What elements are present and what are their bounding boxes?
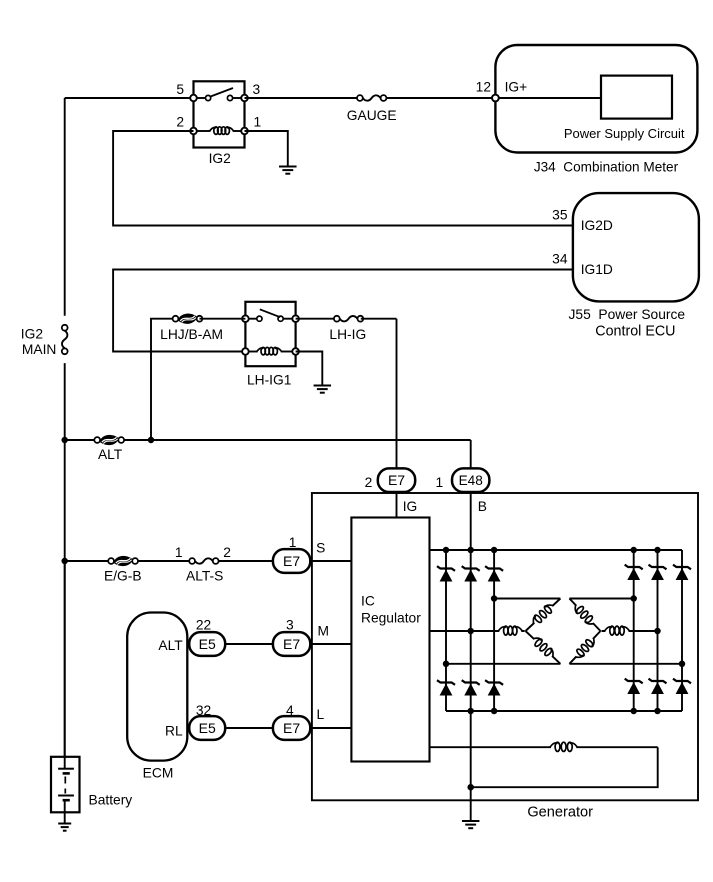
wire B stem through generator <box>470 492 472 821</box>
svg-text:S: S <box>316 540 325 555</box>
node center rail right <box>654 628 661 635</box>
wire B+ top rail <box>430 549 683 551</box>
fuse ALT-S <box>194 557 215 565</box>
svg-text:E/G-B: E/G-B <box>104 569 142 584</box>
wire down to connector E7 IG <box>396 319 398 469</box>
svg-text:2: 2 <box>223 545 231 560</box>
svg-text:IG2: IG2 <box>209 151 231 166</box>
wire diode column R2 <box>657 550 659 711</box>
svg-text:LH-IG: LH-IG <box>329 327 366 342</box>
wire stator phase rail lower-left <box>446 663 560 665</box>
node phase lower-right <box>679 661 686 668</box>
connector E7 IG <box>378 468 415 492</box>
svg-text:3: 3 <box>286 618 294 633</box>
node junction LHJ/B-AM feed <box>148 437 155 444</box>
battery box <box>51 757 80 813</box>
svg-text:E7: E7 <box>283 720 300 736</box>
relay LH-IG1 box <box>245 302 295 366</box>
svg-text:B: B <box>478 499 487 514</box>
fuse LH-IG <box>338 315 359 323</box>
ground LH-IG1 relay <box>314 385 332 387</box>
diode top R1 <box>625 565 643 570</box>
wire IG2 pin1 to ground <box>245 131 288 167</box>
node top rail junctions <box>443 547 450 554</box>
battery cell 1 short plate <box>63 772 70 775</box>
wire stator phase rail upper-right <box>569 598 633 600</box>
stator winding right Y lower branch <box>569 631 600 664</box>
rotor coil <box>551 745 576 749</box>
wire battery to ground <box>64 800 66 823</box>
svg-text:22: 22 <box>196 618 211 633</box>
wire IG stem into IC regulator <box>396 492 398 517</box>
svg-text:J34 Combination Meter: J34 Combination Meter <box>534 160 679 175</box>
svg-text:E48: E48 <box>459 473 483 488</box>
ground battery <box>58 823 71 825</box>
battery cell 2 long plate <box>58 795 74 797</box>
wire LHJ/B-AM feed from ALT junction <box>151 319 176 440</box>
svg-text:IG+: IG+ <box>505 80 528 95</box>
wire IG2 pin2 to J55 IG2D <box>113 131 573 226</box>
node center rail at B column <box>467 628 474 635</box>
wire bottom rail <box>446 710 682 712</box>
svg-text:Regulator: Regulator <box>361 611 421 626</box>
svg-text:34: 34 <box>552 252 568 267</box>
diode top L2 <box>462 566 480 571</box>
diode top L3 <box>485 566 503 571</box>
svg-text:M: M <box>318 623 330 638</box>
wire battery feed vertical left <box>64 98 66 316</box>
stator winding left Y upper branch <box>526 599 561 632</box>
svg-text:LHJ/B-AM: LHJ/B-AM <box>160 327 223 342</box>
svg-text:GAUGE: GAUGE <box>347 108 397 123</box>
wire rotor field circuit <box>430 746 658 748</box>
stator winding left Y lower branch <box>526 631 561 664</box>
wire J55 IG1D to LH-IG1 relay coil <box>113 270 573 352</box>
svg-text:E7: E7 <box>283 636 300 652</box>
wire pin12 to power supply circuit <box>499 97 601 99</box>
svg-text:3: 3 <box>253 82 261 97</box>
diode bottom R3 <box>673 679 691 684</box>
relay IG2 switch contact <box>197 97 206 99</box>
stator winding right Y upper branch <box>569 599 600 632</box>
svg-text:12: 12 <box>476 80 491 95</box>
svg-text:5: 5 <box>176 82 184 97</box>
svg-text:J55 Power Source: J55 Power Source <box>569 307 686 322</box>
diode bottom L2 <box>462 680 480 685</box>
wire stator center rail right <box>602 630 658 632</box>
diode bottom R1 <box>625 679 643 684</box>
connector E5 RL <box>189 716 225 740</box>
svg-text:IG1D: IG1D <box>581 262 613 277</box>
relay LH-IG1 switch contact <box>249 318 257 320</box>
relay IG2 pin 1 <box>241 128 248 135</box>
relay IG2 pin 3 <box>241 95 248 102</box>
wire stator center rail left <box>430 630 525 632</box>
svg-text:ALT-S: ALT-S <box>186 569 223 584</box>
wire LH-IG1 to LH-IG fuse to E7 <box>296 318 337 320</box>
wire IG2 pin3 to GAUGE to meter <box>245 97 496 99</box>
box ECM <box>127 613 187 761</box>
wire diode column L1 <box>445 550 447 711</box>
wire down to connector E48 <box>470 440 472 468</box>
wire diode column L3 <box>493 550 495 711</box>
stator winding right Y horizontal coil <box>606 629 629 633</box>
svg-text:Power Supply Circuit: Power Supply Circuit <box>564 126 685 141</box>
relay LH-IG1 coil <box>249 351 259 353</box>
wire S row horizontal <box>65 560 273 562</box>
relay IG2 pin 5 <box>190 95 197 102</box>
svg-text:IG: IG <box>403 499 418 514</box>
relay IG2 coil <box>197 130 212 132</box>
node junction ALT row <box>61 437 68 444</box>
box Power Supply Circuit <box>601 76 672 119</box>
svg-text:E5: E5 <box>199 636 216 652</box>
relay IG2 pin 2 <box>190 128 197 135</box>
fusible link E/G-B <box>108 558 114 564</box>
box IC Regulator <box>351 518 429 762</box>
wire diode column R3 <box>681 550 683 711</box>
connector E5 ALT <box>189 632 225 656</box>
svg-text:Battery: Battery <box>89 793 133 808</box>
fuse GAUGE <box>361 94 382 102</box>
wire stator phase rail lower-right <box>569 663 682 665</box>
wire S row inside generator <box>310 560 351 562</box>
svg-text:2: 2 <box>176 115 184 130</box>
node bottom rail junctions <box>467 708 474 715</box>
svg-text:2: 2 <box>365 475 373 490</box>
wire LH-IG1 coil right to ground <box>296 352 323 386</box>
relay LH-IG1 pin bottom-left <box>242 348 249 355</box>
pin 12 circle <box>492 95 499 102</box>
svg-text:ECM: ECM <box>143 766 174 781</box>
diode bottom R2 <box>649 679 667 684</box>
fuse IG2 MAIN <box>61 329 69 350</box>
wire L row inside generator <box>310 727 351 729</box>
svg-text:35: 35 <box>552 208 568 223</box>
svg-text:1: 1 <box>289 535 297 550</box>
diode top R2 <box>649 565 667 570</box>
wire ALT row horizontal <box>65 439 471 441</box>
svg-text:IG2D: IG2D <box>581 218 613 233</box>
battery cell 1 long plate <box>58 768 74 770</box>
svg-text:1: 1 <box>436 475 444 490</box>
node junction E/G-B row <box>61 558 68 565</box>
svg-text:MAIN: MAIN <box>22 342 57 357</box>
svg-text:RL: RL <box>165 724 183 739</box>
wire diode column R1 <box>633 550 635 711</box>
relay LH-IG1 pin top-left <box>242 315 249 322</box>
svg-text:LH-IG1: LH-IG1 <box>247 373 291 388</box>
ground IG2 relay <box>279 166 297 168</box>
box Generator <box>312 493 698 800</box>
box J55 Power Source Control ECU <box>573 193 699 301</box>
svg-text:IC: IC <box>361 593 375 608</box>
svg-text:1: 1 <box>175 545 183 560</box>
relay LH-IG1 pin bottom-right <box>292 348 299 355</box>
connector E7 M <box>273 632 310 656</box>
connector E48 B <box>452 468 489 492</box>
wire M row inside generator <box>310 643 351 645</box>
node phase upper-right <box>630 595 637 602</box>
fusible link LHJ/B-AM <box>173 316 179 322</box>
svg-text:IG2: IG2 <box>21 327 43 342</box>
fusible link ALT <box>94 437 100 443</box>
svg-text:E7: E7 <box>283 553 300 569</box>
stator winding left Y horizontal coil <box>499 629 521 633</box>
node phase upper-left <box>491 595 498 602</box>
wire battery vertical into battery <box>64 561 66 768</box>
diode bottom L1 <box>437 680 455 685</box>
ground generator <box>462 820 480 822</box>
connector E7 S <box>273 549 310 573</box>
battery cell 2 short plate <box>63 799 70 802</box>
diode top L1 <box>437 566 455 571</box>
svg-text:E5: E5 <box>199 720 216 736</box>
wire IG2 relay pin5 feed <box>65 97 194 99</box>
svg-text:L: L <box>317 707 325 722</box>
svg-text:E7: E7 <box>388 472 405 488</box>
svg-text:ALT: ALT <box>98 447 123 462</box>
relay LH-IG1 pin top-right <box>292 315 299 322</box>
wire stator phase rail upper-left <box>494 598 560 600</box>
relay IG2 box <box>194 81 245 147</box>
battery dashed link <box>64 777 66 794</box>
diode bottom L3 <box>485 680 503 685</box>
connector E7 L <box>273 716 310 740</box>
svg-text:ALT: ALT <box>158 638 183 653</box>
node phase lower-left <box>443 661 450 668</box>
node rotor return at B line <box>467 784 474 791</box>
box J34 Combination Meter <box>495 45 697 153</box>
svg-text:1: 1 <box>254 115 262 130</box>
svg-text:Control ECU: Control ECU <box>595 324 675 340</box>
svg-text:Generator: Generator <box>527 804 593 820</box>
diode top R3 <box>673 565 691 570</box>
wire E5 to E7 M row <box>225 643 273 645</box>
wire E5 to E7 L row <box>225 727 273 729</box>
